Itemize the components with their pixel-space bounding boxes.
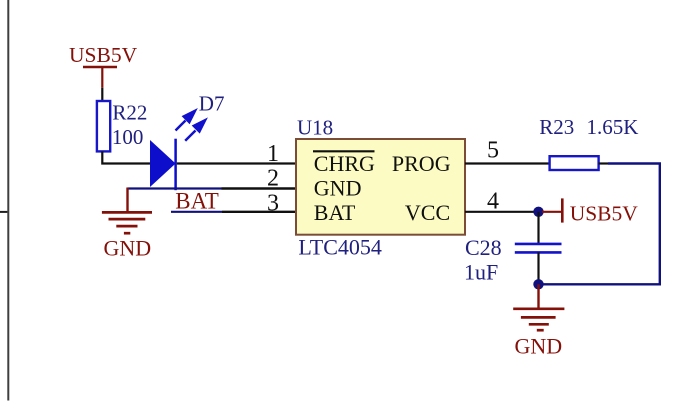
svg-text:BAT: BAT bbox=[175, 189, 218, 214]
svg-text:5: 5 bbox=[487, 138, 499, 164]
svg-text:1.65K: 1.65K bbox=[587, 115, 639, 139]
svg-text:2: 2 bbox=[267, 166, 279, 192]
svg-text:GND: GND bbox=[314, 176, 362, 201]
svg-text:100: 100 bbox=[112, 125, 143, 149]
svg-text:USB5V: USB5V bbox=[570, 201, 639, 225]
svg-text:GND: GND bbox=[104, 236, 152, 261]
svg-text:BAT: BAT bbox=[314, 200, 356, 225]
svg-text:CHRG: CHRG bbox=[314, 151, 375, 176]
svg-text:R23: R23 bbox=[539, 115, 574, 139]
svg-text:U18: U18 bbox=[297, 115, 333, 139]
svg-text:R22: R22 bbox=[112, 101, 147, 125]
svg-text:4: 4 bbox=[487, 189, 499, 215]
svg-text:1uF: 1uF bbox=[464, 259, 498, 284]
svg-text:PROG: PROG bbox=[392, 151, 451, 176]
svg-text:LTC4054: LTC4054 bbox=[298, 235, 382, 260]
svg-text:GND: GND bbox=[515, 334, 563, 359]
svg-text:3: 3 bbox=[267, 190, 279, 216]
svg-text:C28: C28 bbox=[465, 235, 502, 260]
svg-text:VCC: VCC bbox=[405, 200, 450, 225]
svg-text:1: 1 bbox=[267, 141, 279, 167]
svg-text:D7: D7 bbox=[199, 92, 225, 116]
svg-text:USB5V: USB5V bbox=[69, 43, 138, 67]
